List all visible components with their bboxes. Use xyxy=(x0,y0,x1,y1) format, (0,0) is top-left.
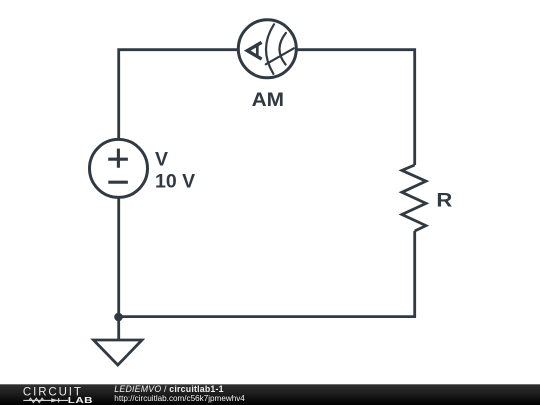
footer bar xyxy=(0,384,540,405)
wire bottom segment xyxy=(119,231,415,317)
svg-text:V: V xyxy=(155,148,168,170)
resistor R zigzag xyxy=(402,165,426,231)
svg-text:AM: AM xyxy=(252,90,284,111)
junction node dot xyxy=(114,313,123,322)
logo wire xyxy=(23,399,68,401)
ammeter dial arc large xyxy=(266,24,274,74)
wire left-top-right segment xyxy=(119,50,415,340)
svg-text:R: R xyxy=(436,190,452,212)
logo diode xyxy=(51,398,58,402)
ammeter needle xyxy=(266,48,294,64)
svg-text:http://circuitlab.com/c56k7jpm: http://circuitlab.com/c56k7jpmewhv4 xyxy=(114,394,245,403)
svg-text:LEDIEMVO / circuitlab1-1: LEDIEMVO / circuitlab1-1 xyxy=(114,384,223,394)
ammeter letter A rotated xyxy=(247,42,261,59)
svg-text:10 V: 10 V xyxy=(155,171,195,193)
ground symbol xyxy=(94,340,143,365)
ammeter dial arc small xyxy=(279,33,285,65)
voltage source minus sign xyxy=(108,181,128,184)
svg-text:LAB: LAB xyxy=(68,397,93,405)
ammeter AM body xyxy=(238,20,296,78)
voltage source V body xyxy=(90,139,148,197)
logo resistor zigzag xyxy=(29,398,44,402)
voltage source plus sign xyxy=(108,149,128,168)
